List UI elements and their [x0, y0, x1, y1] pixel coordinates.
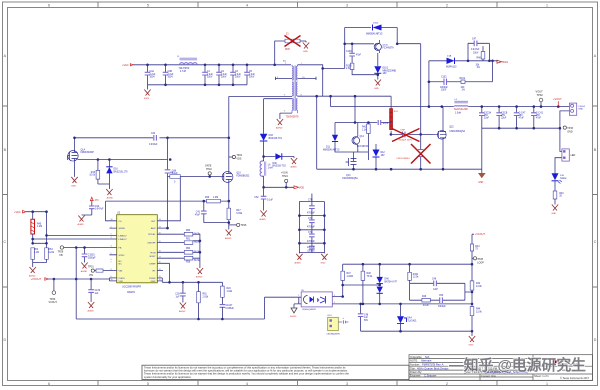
svg-text:C41: C41	[196, 212, 201, 214]
svg-text:1000pF: 1000pF	[440, 87, 448, 89]
svg-text:TP32: TP32	[537, 93, 544, 97]
net VBIAS flag	[497, 60, 508, 64]
svg-text:C52: C52	[254, 197, 259, 199]
svg-text:UREF: UREF	[150, 263, 157, 265]
wire Q10 source node	[228, 200, 231, 203]
svg-text:CSD19534Q5A: CSD19534Q5A	[449, 130, 465, 133]
svg-text:1uF: 1uF	[176, 297, 181, 299]
wire clamp right vertical	[397, 28, 421, 150]
svg-text:MMSD4148T1G: MMSD4148T1G	[323, 149, 340, 151]
svg-text:R49: R49	[422, 296, 427, 298]
test point TP29 FB	[58, 246, 64, 257]
svg-text:D101: D101	[383, 68, 389, 70]
svg-text:1: 1	[546, 3, 548, 7]
svg-text:CN-S4: CN-S4	[578, 106, 585, 108]
ground clamp	[374, 80, 381, 91]
svg-text:C48: C48	[364, 314, 369, 316]
svg-text:—知乎 @电源研究生: —知乎 @电源研究生	[449, 356, 586, 374]
svg-text:GND: GND	[469, 345, 474, 347]
svg-text:C1047: C1047	[226, 305, 233, 307]
svg-text:AGND: AGND	[260, 218, 267, 221]
resistor R43	[89, 160, 99, 185]
net flag ATV	[90, 197, 99, 202]
wire IC gnd bus	[162, 278, 222, 282]
svg-text:400V: 400V	[144, 98, 150, 100]
test point TP30	[49, 279, 58, 304]
wire LINEOV	[33, 238, 110, 240]
capacitor C34	[149, 133, 158, 146]
svg-text:VCOUT: VCOUT	[49, 301, 58, 304]
ground divider	[29, 263, 36, 278]
capacitor C1	[202, 65, 213, 85]
svg-text:6: 6	[48, 3, 50, 7]
svg-text:1.00k: 1.00k	[227, 291, 233, 293]
svg-text:UCC2897ARGPR: UCC2897ARGPR	[122, 286, 141, 289]
svg-text:C71: C71	[308, 218, 313, 220]
ground C52	[260, 211, 267, 222]
IC U10 reference	[327, 315, 341, 335]
svg-text:N/A: N/A	[425, 355, 430, 359]
svg-text:C47: C47	[472, 38, 477, 40]
svg-text:14.0k: 14.0k	[476, 286, 482, 288]
ground SGND	[290, 304, 299, 318]
svg-text:FCX493TA: FCX493TA	[383, 46, 395, 49]
inductor L4	[454, 99, 469, 114]
svg-text:1%: 1%	[477, 67, 480, 69]
wire Q1A gate net	[78, 159, 168, 161]
svg-text:DNP: DNP	[401, 130, 406, 132]
svg-text:C73: C73	[308, 232, 313, 234]
ground C38	[179, 303, 186, 314]
svg-text:3300pF: 3300pF	[438, 306, 446, 308]
test point TP31 VIN	[88, 266, 103, 278]
svg-text:Q13: Q13	[346, 175, 351, 177]
svg-text:0.033uF: 0.033uF	[149, 144, 158, 146]
capacitor C48	[165, 170, 179, 175]
svg-text:PMP9757B Rev: A: PMP9757B Rev: A	[422, 362, 444, 366]
disclaimer text box	[142, 365, 409, 379]
ground T1 shield	[276, 119, 283, 130]
svg-text:1%: 1%	[462, 90, 465, 92]
resistor R44b	[470, 304, 482, 331]
svg-text:Yellow: Yellow	[560, 178, 567, 180]
svg-text:Q10: Q10	[236, 173, 241, 175]
svg-text:100V: 100V	[221, 76, 227, 78]
svg-text:2200pF 250V: 2200pF 250V	[399, 139, 413, 141]
wire clamp base	[345, 43, 374, 45]
svg-text:VDD: VDD	[119, 281, 124, 283]
svg-text:4.7uH: 4.7uH	[180, 71, 186, 73]
svg-text:100V: 100V	[441, 90, 447, 92]
svg-text:47uF: 47uF	[536, 118, 542, 120]
ground Q10 source	[225, 230, 232, 241]
svg-text:CS: CS	[119, 221, 123, 223]
svg-text:+VCOUT: +VCOUT	[475, 233, 486, 236]
transistor Q12	[352, 123, 369, 150]
resistor R47cs	[227, 201, 243, 229]
svg-text:R102: R102	[460, 78, 466, 80]
svg-text:100V: 100V	[235, 76, 241, 78]
svg-text:TP22: TP22	[206, 168, 212, 171]
svg-text:GND: GND	[374, 88, 379, 90]
op-amp U2 controller	[117, 212, 158, 294]
svg-text:GND: GND	[578, 109, 583, 111]
DNP X mark C21	[392, 129, 420, 142]
svg-text:FDMS86202: FDMS86202	[236, 175, 250, 177]
svg-text:RSI40Q0B1R: RSI40Q0B1R	[303, 309, 317, 311]
capacitor C33 FB	[82, 248, 96, 263]
ground sync bus	[478, 169, 486, 184]
capacitor C52	[254, 187, 273, 210]
svg-text:1500pF: 1500pF	[88, 257, 96, 259]
diode D46 dual	[377, 264, 398, 304]
svg-text:CSD19534Q5A: CSD19534Q5A	[342, 177, 358, 180]
resistor R56	[184, 256, 200, 263]
svg-text:75.0k: 75.0k	[367, 276, 373, 278]
wire VDD rail top	[75, 137, 229, 139]
svg-text:SGND: SGND	[290, 316, 297, 318]
resistor R48	[476, 46, 485, 69]
diode D101 zener	[374, 53, 396, 80]
svg-text:Number:: Number:	[410, 362, 420, 366]
svg-text:GND: GND	[71, 186, 76, 188]
TI logo	[553, 359, 590, 380]
svg-text:47pF: 47pF	[356, 54, 362, 56]
wire bias lower loop	[429, 61, 493, 82]
svg-text:4: 4	[246, 382, 248, 386]
svg-text:Q15: Q15	[449, 127, 454, 129]
resistor R47o	[341, 264, 381, 296]
node junctions bottom bus	[164, 84, 234, 87]
wire C47 loop	[468, 43, 489, 61]
svg-text:BAS21SL1T9: BAS21SL1T9	[114, 170, 129, 173]
svg-text:1.2M: 1.2M	[37, 226, 42, 228]
svg-text:BAS316-T19: BAS316-T19	[269, 137, 283, 140]
net +VAC flag	[14, 210, 26, 214]
svg-text:4.22k: 4.22k	[48, 252, 54, 254]
test point TP22 GATE	[205, 164, 212, 177]
svg-text:1.00M: 1.00M	[347, 276, 353, 278]
wire primary switch node	[229, 95, 292, 97]
svg-text:2: 2	[446, 382, 448, 386]
svg-text:3: 3	[346, 382, 348, 386]
wire output cap gnd bus	[482, 127, 560, 129]
svg-text:AGND: AGND	[107, 197, 114, 200]
svg-text:CAP: CAP	[433, 288, 438, 291]
capacitor C71	[307, 216, 315, 230]
svg-text:TP24: TP24	[282, 175, 288, 178]
svg-text:Q1A: Q1A	[81, 148, 86, 151]
wire FB	[64, 247, 110, 249]
transistor Q10	[222, 172, 250, 202]
svg-text:LOOP: LOOP	[477, 261, 484, 264]
resistor R44t	[470, 244, 480, 264]
svg-text:R50: R50	[186, 230, 191, 232]
resistor R54	[184, 248, 200, 254]
svg-text:MURA110: MURA110	[446, 65, 457, 68]
wire clamp left vertical	[344, 28, 346, 69]
svg-text:100V: 100V	[150, 76, 156, 78]
svg-text:16: 16	[111, 219, 113, 221]
wire fb top bus	[343, 263, 472, 265]
diode D11	[323, 135, 352, 152]
svg-text:4TV: 4TV	[95, 200, 100, 202]
net +VAC wire	[26, 211, 47, 213]
svg-text:VDS: VDS	[236, 158, 241, 161]
diode D100	[366, 22, 383, 35]
capacitor C31	[496, 107, 507, 129]
capacitor C4A	[145, 65, 156, 85]
resistor R51	[184, 238, 200, 244]
svg-text:5: 5	[147, 382, 149, 386]
svg-text:R48: R48	[367, 273, 372, 275]
transistor Q15	[433, 107, 466, 170]
diode D33	[260, 134, 283, 141]
ground resistor rail	[196, 268, 203, 279]
svg-text:18V: 18V	[383, 73, 388, 75]
DNP X mark C22	[411, 144, 431, 164]
wire clamp tap	[323, 67, 345, 69]
svg-text:R101: R101	[413, 274, 419, 276]
svg-text:Q100: Q100	[383, 45, 389, 47]
wire bias anode	[429, 60, 447, 62]
wire aux vertical	[167, 138, 169, 228]
svg-text:13.0k: 13.0k	[413, 277, 419, 279]
svg-text:© Texas Instruments 2017: © Texas Instruments 2017	[560, 377, 590, 380]
resistor R61	[197, 282, 209, 319]
wire R43 D16 join	[98, 184, 110, 189]
svg-text:R46: R46	[205, 197, 210, 199]
wire switch node vertical	[228, 96, 230, 173]
svg-text:0.056uF: 0.056uF	[226, 308, 235, 310]
svg-text:100V: 100V	[207, 76, 213, 78]
svg-text:+VCOUT: +VCOUT	[31, 277, 42, 281]
svg-text:C: C	[594, 240, 597, 244]
svg-text:2: 2	[446, 3, 448, 7]
svg-text:BIAS: BIAS	[503, 61, 509, 64]
svg-text:GND: GND	[151, 281, 156, 283]
svg-text:R53: R53	[48, 249, 53, 251]
svg-text:4700pF: 4700pF	[307, 241, 315, 243]
resistor R31 snubber DNP (red)	[390, 96, 399, 130]
svg-text:VIN: VIN	[119, 271, 123, 273]
svg-text:22uF: 22uF	[501, 118, 507, 120]
opto pin numbers	[298, 295, 335, 304]
capacitor C21 DNP	[390, 133, 393, 136]
svg-text:C40: C40	[95, 206, 100, 208]
svg-text:GND: GND	[551, 213, 556, 215]
svg-text:76.7k: 76.7k	[194, 242, 200, 244]
svg-text:43.2k: 43.2k	[423, 305, 429, 307]
svg-text:C38: C38	[175, 294, 180, 296]
svg-text:VDD: VDD	[299, 186, 304, 189]
resistor R42g gate	[168, 172, 222, 183]
capacitor C39	[88, 279, 100, 302]
capacitor C41	[195, 201, 207, 223]
svg-text:LED: LED	[571, 154, 576, 157]
svg-text:0.1uF: 0.1uF	[267, 200, 273, 202]
svg-text:1: 1	[298, 295, 299, 297]
wire UREF drop	[169, 263, 171, 282]
transistor Q13	[342, 152, 358, 180]
svg-text:1: 1	[546, 382, 548, 386]
wire T1 side tap right pin 1S	[298, 77, 317, 80]
capacitor C5	[244, 65, 255, 85]
svg-text:R47: R47	[347, 273, 352, 275]
IC right pin stubs	[157, 228, 184, 281]
svg-text:D36: D36	[273, 163, 278, 165]
component Z1 DNP	[285, 34, 306, 51]
net +VAC input flag	[122, 63, 133, 67]
test point TP21	[229, 154, 243, 160]
wire secondary top	[298, 95, 392, 97]
svg-text:R48: R48	[477, 58, 482, 60]
svg-text:RTDEL: RTDEL	[148, 234, 156, 236]
test point TP32 VOUT	[536, 90, 544, 107]
svg-text:22uF: 22uF	[484, 118, 490, 120]
ground C40	[78, 216, 85, 227]
svg-text:OUT: OUT	[151, 221, 156, 223]
ground C33	[81, 263, 88, 274]
capacitor C40	[82, 201, 105, 215]
ground Y-cap left	[295, 254, 303, 265]
svg-text:C3C3A: C3C3A	[484, 111, 492, 114]
svg-text:0.047uF: 0.047uF	[95, 209, 104, 211]
capacitor C32	[514, 107, 526, 129]
resistor R46	[106, 197, 229, 203]
wire gate from IC	[157, 177, 180, 221]
svg-text:AGND: AGND	[179, 310, 186, 313]
svg-text:R42: R42	[170, 172, 175, 174]
svg-text:MMSZ5248B: MMSZ5248B	[383, 70, 397, 72]
svg-text:Contact: N/A: Contact: N/A	[481, 374, 496, 378]
wire T1 bottom pin to ground	[280, 113, 292, 119]
svg-text:47pF: 47pF	[383, 123, 389, 125]
test point TP24	[281, 172, 288, 188]
wire CS	[106, 201, 117, 221]
svg-text:1.0M: 1.0M	[213, 197, 218, 199]
svg-text:GND: GND	[478, 182, 483, 184]
capacitor C22 DNP	[396, 150, 423, 170]
svg-text:D1A: D1A	[447, 55, 452, 58]
svg-text:GATE: GATE	[205, 164, 212, 167]
svg-text:47uF: 47uF	[519, 118, 525, 120]
svg-text:D46: D46	[385, 279, 390, 281]
svg-text:D16: D16	[114, 169, 119, 171]
svg-text:5.09k: 5.09k	[236, 213, 242, 215]
resistor R41	[362, 124, 370, 152]
wire secondary rail	[331, 106, 570, 108]
svg-text:FB: FB	[60, 254, 63, 257]
svg-text:C34: C34	[151, 133, 156, 135]
svg-text:18V: 18V	[381, 155, 386, 157]
svg-text:47pF: 47pF	[195, 214, 201, 216]
svg-text:R51: R51	[186, 238, 191, 240]
wire aux winding top	[264, 99, 292, 134]
wire T1 side tap left pin4	[275, 77, 292, 80]
svg-text:R41: R41	[362, 127, 367, 129]
svg-text:Title:: Title:	[410, 366, 416, 370]
wire VDD node	[264, 186, 294, 188]
net +VOUT flag	[553, 97, 562, 106]
svg-text:AGND: AGND	[81, 270, 88, 273]
capacitor C53	[338, 318, 348, 324]
IC left pin stubs	[103, 228, 117, 281]
shunt ref U4A	[397, 304, 417, 331]
svg-text:TP31: TP31	[88, 266, 94, 269]
svg-text:6: 6	[48, 382, 50, 386]
resistor R48o	[361, 264, 373, 304]
svg-text:D: D	[3, 338, 6, 342]
svg-text:BAS316-T19: BAS316-T19	[273, 165, 287, 168]
ground LED	[551, 205, 558, 216]
svg-text:1000pF: 1000pF	[307, 247, 315, 249]
transistor Q1A	[68, 138, 95, 167]
svg-text:Sheet: 1 of 1: Sheet: 1 of 1	[534, 374, 549, 378]
svg-text:3: 3	[346, 3, 348, 7]
capacitor C7B	[307, 199, 315, 215]
svg-text:5: 5	[147, 3, 149, 7]
capacitor C102	[440, 76, 448, 91]
svg-text:1uF: 1uF	[95, 293, 100, 295]
test point TP26	[229, 223, 247, 227]
wire resistor rail	[193, 234, 200, 268]
svg-text:RON: RON	[151, 252, 156, 254]
svg-text:C4A: C4A	[150, 70, 155, 73]
svg-text:AGND: AGND	[225, 237, 232, 240]
svg-text:4700pF: 4700pF	[307, 212, 315, 214]
resistor R40	[553, 181, 564, 205]
svg-text:CSD17483F4: CSD17483F4	[396, 158, 410, 160]
svg-text:PGND: PGND	[149, 278, 156, 280]
svg-text:0.047uF: 0.047uF	[471, 49, 480, 51]
svg-text:C.Strauser: C.Strauser	[424, 374, 437, 378]
title block text rows	[410, 355, 549, 378]
svg-text:1.0uH: 1.0uH	[455, 112, 461, 114]
svg-text:4700pF: 4700pF	[307, 227, 315, 229]
svg-text:D: D	[594, 338, 597, 342]
svg-text:86.6k: 86.6k	[194, 260, 200, 262]
svg-text:TacNSR-2R0: TacNSR-2R0	[454, 108, 469, 111]
ground Y-cap right	[321, 254, 328, 265]
opto pin wires	[299, 297, 343, 304]
svg-text:C: C	[3, 240, 6, 244]
capacitor C3	[230, 65, 241, 85]
svg-text:R44: R44	[475, 246, 480, 248]
resistor R50	[184, 230, 200, 236]
svg-text:AGND: AGND	[196, 276, 203, 279]
svg-text:FDMC8030P: FDMC8030P	[81, 152, 95, 154]
capacitor C2	[216, 65, 227, 85]
wire DNP stub	[275, 41, 285, 65]
connector J4 LED	[562, 149, 576, 161]
net VDD flag	[294, 186, 304, 190]
transformer T1	[277, 61, 305, 113]
IC U2 pin numbers	[111, 219, 161, 281]
svg-text:+VAC: +VAC	[122, 63, 129, 67]
wire q12 emitter	[352, 149, 368, 160]
svg-text:R52: R52	[34, 249, 39, 251]
wire gate drive harness	[335, 96, 391, 135]
DNP X mark Z1	[285, 36, 301, 47]
node junctions top bus	[146, 64, 276, 67]
ground input bus	[144, 85, 151, 100]
svg-text:U4A: U4A	[407, 317, 412, 320]
capacitor C47b	[220, 305, 235, 319]
wire VAC top bus	[133, 64, 291, 66]
svg-text:R54: R54	[186, 248, 191, 250]
svg-text:R61: R61	[203, 294, 208, 296]
